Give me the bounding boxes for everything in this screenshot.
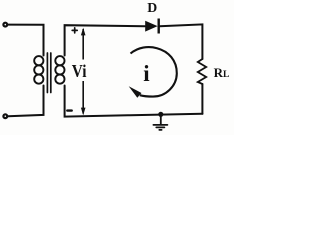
current loop arrow i (clockwise arc)	[131, 47, 177, 97]
junction node dot (ground connection)	[158, 112, 163, 117]
wire secondary top to diode anode (top rail)	[65, 25, 145, 55]
terminal J1 (top-left input)	[3, 23, 7, 27]
wire secondary bottom to bottom rail	[65, 86, 203, 117]
Vi measurement arrow (double-headed vertical)	[81, 28, 86, 116]
resistor RL zigzag	[198, 59, 206, 84]
svg-text:L: L	[223, 70, 229, 80]
wire top-left terminal to transformer primary	[8, 25, 44, 56]
svg-text:Vi: Vi	[72, 61, 87, 81]
svg-text:D: D	[147, 0, 157, 15]
plus sign (top of Vi)	[72, 28, 77, 33]
terminal J2 (bottom-left input)	[3, 114, 7, 118]
diode D (anode left, cathode right)	[145, 19, 160, 34]
transformer T1 core	[47, 53, 50, 93]
minus sign (bottom of Vi)	[67, 109, 71, 111]
wire diode cathode to resistor RL	[160, 24, 203, 59]
wire bottom-left terminal to transformer primary	[8, 86, 44, 117]
transformer T1 secondary winding	[55, 56, 64, 84]
wire resistor RL to bottom rail	[201, 84, 203, 114]
svg-text:i: i	[143, 61, 150, 86]
ground symbol	[153, 114, 167, 130]
transformer T1 primary winding	[34, 56, 43, 84]
arrowhead of current loop	[129, 86, 142, 98]
